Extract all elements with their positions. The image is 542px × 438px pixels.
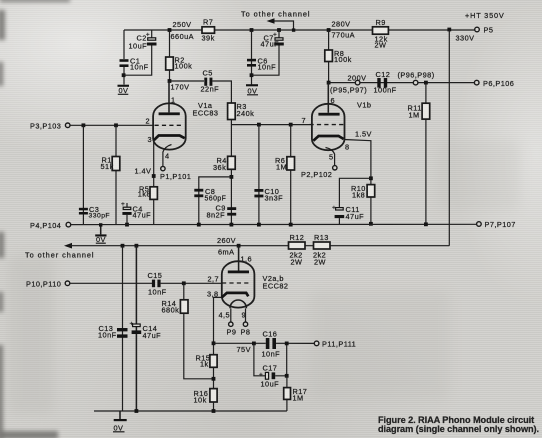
node R11 tap: [424, 81, 428, 85]
wire to C8: [199, 177, 232, 225]
svg-text:47uF: 47uF: [261, 40, 280, 49]
svg-text:C15: C15: [148, 271, 163, 280]
wire R15 bottom to R16: [213, 367, 215, 388]
svg-text:10nF: 10nF: [262, 350, 281, 359]
svg-text:8n2F: 8n2F: [207, 211, 226, 220]
wire 170V row to C5: [170, 80, 205, 82]
node C6 tap on rail: [250, 28, 254, 32]
node R8 tap on rail: [327, 28, 331, 32]
wire V1b cathode to R10 branch: [344, 140, 371, 185]
svg-text:4,5: 4,5: [219, 310, 231, 319]
svg-text:6mA: 6mA: [218, 248, 234, 257]
svg-text:+HT 350V: +HT 350V: [465, 11, 505, 20]
wire R8 branch: [328, 30, 330, 83]
svg-text:C16: C16: [263, 330, 278, 339]
terminal P2,P102: [301, 166, 337, 179]
node R16 tap on ground row: [212, 409, 216, 413]
wire C3 branch down to 0V rail: [82, 125, 84, 224]
node C3 tap: [82, 123, 86, 127]
svg-text:2: 2: [146, 117, 151, 126]
svg-text:P5: P5: [484, 26, 494, 35]
resistor R7: [202, 18, 215, 43]
capacitor C17: [259, 364, 279, 389]
resistor R16: [194, 389, 218, 405]
wire V1b grid row: [231, 124, 309, 126]
wire HT rail 250V/280V top horizontal: [124, 29, 476, 31]
svg-text:75V: 75V: [237, 345, 251, 354]
capacitor C8: [194, 187, 226, 203]
wire C1 bottom to ground: [123, 67, 125, 85]
svg-text:R7: R7: [203, 18, 213, 27]
svg-text:1M: 1M: [276, 163, 287, 172]
tube V1b cathode: [313, 136, 343, 141]
wire bottom ground row: [94, 410, 287, 412]
tube V1a pin 4 lead: [163, 145, 172, 167]
svg-text:P7,P107: P7,P107: [485, 220, 516, 229]
ground 0V below C6: [246, 84, 258, 95]
capacitor C13: [98, 324, 128, 340]
wire V2 anode feed: [238, 246, 240, 271]
svg-text:10k: 10k: [194, 396, 207, 405]
wire other channel 260V row: [68, 245, 449, 247]
svg-text:P1,P101: P1,P101: [160, 172, 191, 181]
capacitor C4: [121, 201, 151, 225]
wire P3 input row to V1a grid: [70, 124, 153, 126]
tube V2 anode plate: [228, 271, 249, 274]
wire R17 branch down to ground row: [286, 376, 288, 411]
svg-text:4: 4: [165, 152, 170, 161]
svg-text:R13: R13: [314, 233, 329, 242]
svg-text:P3,P103: P3,P103: [30, 121, 61, 130]
node C17 output junction: [285, 342, 289, 346]
svg-text:3n3F: 3n3F: [265, 194, 284, 203]
node R14-R15-R16 junction: [212, 377, 216, 381]
wire R16 bottom to ground row: [213, 402, 215, 411]
wire R2 branch: [169, 30, 171, 81]
terminal (P95,P97) test point: [355, 80, 360, 85]
node C9 tap on 0V rail: [230, 223, 234, 227]
node R6 tap: [289, 123, 293, 127]
svg-text:680k: 680k: [162, 306, 180, 315]
wire 330V vertical to R13 row: [448, 30, 450, 246]
node C1-C2 junction: [122, 73, 126, 77]
resistor R9: [373, 18, 389, 50]
resistor R10: [351, 184, 375, 200]
terminal P6,P106: [474, 79, 514, 88]
ground 0V on bottom row: [113, 411, 127, 433]
svg-text:(P95,P97): (P95,P97): [330, 86, 367, 95]
svg-text:1M: 1M: [409, 111, 420, 120]
resistor R2: [166, 56, 193, 71]
svg-text:10nF: 10nF: [130, 63, 149, 72]
svg-text:10nF: 10nF: [258, 63, 277, 72]
svg-text:diagram (single channel only s: diagram (single channel only shown).: [378, 424, 539, 434]
tube V1b pin 5 lead: [326, 148, 335, 166]
tube V2 grid (dashed): [222, 282, 249, 284]
svg-text:280V: 280V: [332, 20, 351, 29]
wire C5 to R3 top: [212, 81, 231, 103]
terminal P5: [475, 26, 494, 35]
node R17 tap: [285, 374, 289, 378]
terminal P8: [241, 322, 251, 337]
terminal P9: [227, 322, 237, 337]
svg-text:R12: R12: [290, 233, 305, 242]
resistor R5: [138, 184, 158, 199]
wire to C11: [339, 178, 371, 207]
svg-text:10uF: 10uF: [261, 380, 280, 389]
resistor R12: [289, 233, 306, 267]
node R11 tap on 0V rail: [424, 222, 428, 226]
svg-text:2W: 2W: [375, 41, 387, 50]
wire P10 input row to C15: [70, 282, 152, 284]
wire to other channel tap (top): [271, 21, 294, 30]
svg-text:+: +: [332, 205, 336, 212]
node C14 tap on ground row: [135, 409, 139, 413]
capacitor C5: [201, 69, 220, 94]
wire C2 bottom to C1 junction: [124, 46, 152, 76]
node 330V feed junction: [447, 28, 451, 32]
node R14 tap: [182, 281, 186, 285]
node channel tap: [292, 28, 295, 31]
tube V1a anode plate: [159, 81, 180, 115]
svg-text:100nF: 100nF: [374, 86, 397, 95]
node R1 tap: [114, 123, 118, 127]
terminal (P96,P98) test point: [413, 80, 418, 85]
wire C1/C2 branch vertical from rail: [123, 30, 125, 59]
svg-text:ECC83: ECC83: [193, 109, 219, 118]
resistor R1: [101, 156, 120, 172]
node C10 tap: [257, 123, 261, 127]
tube V1b grid (dashed): [310, 124, 344, 126]
wire R11 branch down to 0V rail: [425, 83, 427, 225]
wire 0V rail: [71, 223, 477, 225]
terminal P4,P104: [30, 221, 71, 230]
svg-text:6: 6: [331, 96, 336, 105]
tube V2 envelope: [222, 261, 255, 307]
wire R3 bottom to grid row and R4: [230, 120, 232, 157]
wire heater pin lead left: [230, 308, 232, 321]
capacitor C7: [261, 30, 284, 49]
scan edge artifacts: [0, 10, 5, 40]
svg-text:+: +: [121, 201, 125, 208]
svg-text:330V: 330V: [456, 34, 475, 43]
svg-text:1.4V: 1.4V: [135, 167, 152, 176]
ground 0V on rail: [95, 223, 106, 244]
svg-text:330pF: 330pF: [89, 213, 111, 220]
wire R14 branch: [184, 283, 214, 379]
wire 200V row to P6: [329, 82, 475, 84]
node C17 left tap: [252, 342, 256, 346]
svg-text:51k: 51k: [101, 162, 114, 171]
svg-text:8: 8: [345, 143, 350, 152]
capacitor C12: [374, 70, 397, 95]
svg-text:10nF: 10nF: [148, 288, 167, 297]
svg-text:250V: 250V: [173, 20, 192, 29]
svg-text:P6,P106: P6,P106: [483, 79, 514, 88]
svg-text:10uF: 10uF: [129, 42, 148, 51]
svg-text:To other channel: To other channel: [241, 10, 311, 19]
svg-text:100k: 100k: [334, 55, 352, 64]
svg-text:3: 3: [148, 135, 153, 144]
node C4 tap on 0V rail: [125, 223, 129, 227]
svg-text:1k: 1k: [200, 360, 209, 369]
wire R1 branch down to 0V rail: [115, 125, 117, 224]
svg-text:P8: P8: [241, 328, 251, 337]
wire V2 cathode column: [214, 297, 222, 354]
svg-text:36k: 36k: [213, 163, 226, 172]
wire C6 branch: [251, 30, 253, 85]
svg-text:47uF: 47uF: [346, 212, 365, 221]
svg-text:5: 5: [329, 153, 334, 162]
node 75V cathode junction: [212, 341, 216, 345]
svg-text:(P96,P98): (P96,P98): [398, 71, 435, 80]
svg-text:7: 7: [302, 116, 307, 125]
capacitor C1: [120, 57, 149, 72]
svg-text:660uA: 660uA: [171, 32, 195, 41]
capacitor C16: [262, 330, 281, 359]
terminal P11,P111: [314, 340, 356, 349]
svg-text:560pF: 560pF: [205, 196, 227, 203]
capacitor C9: [207, 204, 237, 220]
wire 75V output row: [214, 342, 266, 344]
terminal P1,P101: [160, 166, 191, 181]
node R10-C11 junction: [369, 176, 373, 180]
terminal P10,P110: [26, 280, 70, 289]
node V1b anode junction 200V: [327, 81, 331, 85]
terminal P7,P107: [477, 220, 516, 229]
node C8 tap on 0V rail: [197, 223, 201, 227]
resistor R4: [213, 156, 235, 172]
capacitor C14: [130, 321, 162, 341]
capacitor C6: [247, 57, 276, 72]
svg-text:ECC82: ECC82: [263, 282, 289, 291]
wire C7 bottom to C6 junction: [252, 46, 280, 76]
node 260V anode tap: [237, 244, 241, 248]
terminal P3,P103 input: [30, 121, 70, 130]
svg-text:170V: 170V: [171, 83, 190, 92]
svg-text:V1b: V1b: [357, 101, 371, 110]
node R2 tap on rail: [168, 28, 172, 32]
resistor R14: [162, 299, 189, 315]
node 1.4V measure point: [152, 174, 156, 178]
svg-text:R9: R9: [376, 18, 386, 27]
resistor R17: [284, 387, 308, 403]
svg-text:770uA: 770uA: [332, 31, 356, 40]
svg-text:2W: 2W: [291, 258, 303, 267]
svg-text:1k8: 1k8: [352, 191, 365, 200]
node C7 tap on rail: [277, 28, 281, 32]
svg-text:P2,P102: P2,P102: [301, 170, 332, 179]
node 170V junction: [168, 79, 172, 83]
svg-text:22nF: 22nF: [201, 85, 220, 94]
tube V1a cathode: [154, 136, 185, 141]
wire C13 branch down: [122, 246, 124, 411]
wire C10 branch down to 0V rail: [258, 125, 260, 225]
svg-text:47uF: 47uF: [143, 331, 162, 340]
wire R4 bottom junction: [230, 169, 232, 224]
svg-text:C5: C5: [203, 69, 213, 78]
svg-text:39k: 39k: [202, 34, 215, 43]
tube V1b anode plate: [318, 83, 339, 116]
svg-text:2W: 2W: [314, 258, 326, 267]
capacitor C2: [129, 30, 157, 51]
tube V2 heater bump: [230, 300, 246, 308]
svg-text:1: 1: [171, 96, 176, 105]
svg-text:P10,P110: P10,P110: [26, 280, 61, 289]
wire C17 left branch: [254, 343, 266, 375]
resistor R3: [228, 102, 255, 120]
svg-text:1.5V: 1.5V: [355, 130, 372, 139]
wire V1a cathode down to R5: [153, 141, 155, 225]
svg-text:C17: C17: [263, 364, 278, 373]
wire R6 branch down to 0V rail: [290, 125, 292, 225]
node C13 tap: [121, 244, 125, 248]
svg-text:+: +: [259, 372, 263, 379]
capacitor C11: [332, 205, 364, 225]
wire C15 to V2 grid: [161, 282, 222, 284]
node C14 tap: [135, 244, 139, 248]
svg-text:10nF: 10nF: [98, 331, 117, 340]
capacitor C15: [148, 271, 167, 297]
svg-text:P4,P104: P4,P104: [30, 221, 61, 230]
arrowhead to other channel (top): [267, 18, 275, 24]
svg-text:To other channel: To other channel: [25, 251, 95, 260]
capacitor C10: [254, 187, 283, 203]
tube V1b envelope: [312, 104, 345, 150]
svg-text:1M: 1M: [293, 394, 304, 403]
arrowhead to other channel (bottom): [64, 243, 72, 249]
node R10 tap on 0V rail: [369, 222, 373, 226]
tube V1a envelope: [153, 103, 186, 149]
capacitor C3: [79, 205, 110, 220]
svg-text:+: +: [130, 321, 134, 328]
node C10 tap on 0V rail: [257, 223, 261, 227]
svg-text:1k8: 1k8: [138, 190, 151, 199]
node R6 tap on 0V rail: [289, 223, 293, 227]
svg-text:0V: 0V: [114, 424, 124, 433]
resistor R8: [325, 49, 352, 64]
wire R10 bottom to 0V rail: [370, 197, 372, 224]
svg-text:240k: 240k: [237, 109, 255, 118]
tube V2 cathode: [222, 293, 249, 298]
wire heater pin lead right: [245, 308, 247, 321]
svg-text:P9: P9: [227, 328, 237, 337]
ground 0V below C1: [118, 85, 130, 96]
resistor R15: [196, 354, 218, 369]
svg-text:260V: 260V: [217, 236, 236, 245]
svg-text:+: +: [273, 32, 277, 39]
resistor R13: [313, 233, 330, 267]
resistor R11: [408, 103, 430, 119]
node C6-C7 junction: [250, 73, 254, 77]
tube V1a grid (dashed): [155, 124, 184, 126]
wire C14 branch down: [135, 246, 137, 411]
svg-text:C12: C12: [376, 70, 391, 79]
wire C17 right branch up to output row: [275, 343, 287, 375]
svg-text:100k: 100k: [175, 62, 193, 71]
svg-text:47uF: 47uF: [133, 211, 152, 220]
svg-text:+: +: [146, 32, 150, 39]
resistor R6: [275, 156, 295, 172]
node R4-C8 junction: [230, 175, 234, 179]
svg-text:2,7: 2,7: [208, 275, 220, 284]
wire C16 to P11: [276, 342, 314, 344]
svg-text:P11,P111: P11,P111: [322, 340, 356, 349]
